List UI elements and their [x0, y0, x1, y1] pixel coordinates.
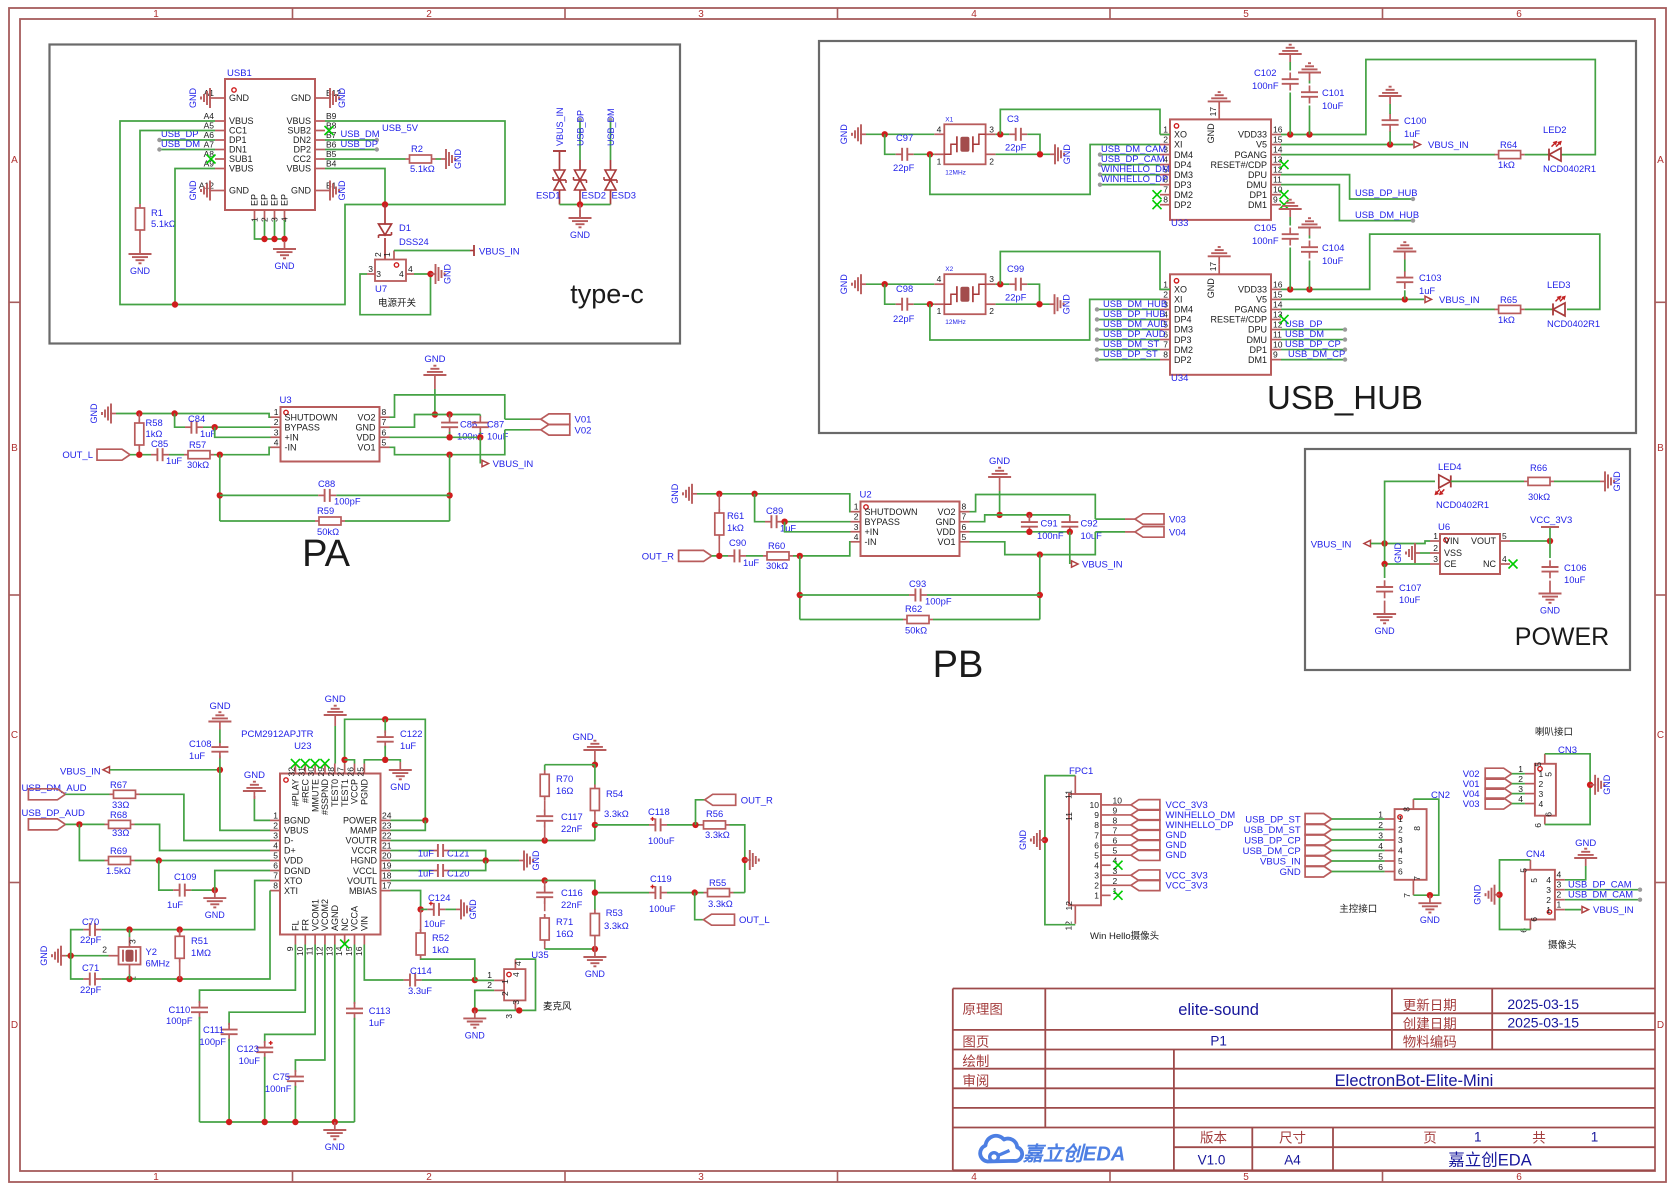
svg-text:VBUS_IN: VBUS_IN: [60, 767, 101, 778]
svg-text:2: 2: [1378, 820, 1383, 830]
wire: [970, 531, 1070, 533]
svg-text:5.1kΩ: 5.1kΩ: [151, 218, 176, 229]
svg-text:USB_DM_ST: USB_DM_ST: [1244, 825, 1301, 836]
svg-text:2: 2: [426, 1172, 432, 1183]
svg-text:C90: C90: [729, 537, 746, 548]
svg-text:GND: GND: [572, 732, 593, 743]
diode D1 DSS24: [384, 205, 386, 225]
svg-text:VCCA: VCCA: [350, 906, 360, 931]
wire: [325, 139, 377, 141]
svg-text:R54: R54: [606, 788, 623, 799]
junction: [592, 762, 598, 768]
junction: [1026, 529, 1032, 535]
led LED2 NCD0402R1: [1548, 149, 1550, 161]
wire: [1451, 480, 1524, 482]
net flag VBUS_IN (U33): [1414, 141, 1421, 147]
junction: [432, 411, 438, 417]
svg-text:V03: V03: [1169, 515, 1186, 526]
svg-text:5: 5: [1544, 772, 1554, 777]
wire: [475, 979, 494, 981]
port flag VCC_3V3 FPC1 pin 2: [1131, 880, 1160, 891]
wire: [1281, 298, 1424, 300]
svg-text:-IN: -IN: [865, 537, 877, 547]
junction: [1381, 540, 1387, 546]
svg-text:3: 3: [989, 124, 994, 134]
junction: [716, 553, 722, 559]
svg-text:R66: R66: [1530, 462, 1547, 473]
svg-text:1: 1: [1094, 891, 1099, 901]
svg-text:1uF: 1uF: [189, 750, 205, 761]
port flag GND FPC1 pin 6: [1131, 840, 1160, 851]
svg-text:30kΩ: 30kΩ: [766, 560, 788, 571]
svg-text:摄像头: 摄像头: [1548, 939, 1577, 951]
svg-text:2: 2: [1518, 774, 1523, 784]
svg-text:2: 2: [989, 306, 994, 316]
wire: [354, 945, 356, 1005]
svg-text:1: 1: [500, 979, 510, 984]
svg-text:LED4: LED4: [1438, 461, 1461, 472]
svg-text:R61: R61: [727, 510, 744, 521]
wire: [345, 719, 426, 820]
wire: [274, 220, 276, 239]
svg-text:DN1: DN1: [229, 145, 247, 155]
svg-text:VOUTR: VOUTR: [346, 836, 378, 846]
capacitor C84 1uF: [185, 426, 191, 428]
svg-text:GND: GND: [325, 694, 346, 705]
svg-text:GND: GND: [390, 782, 411, 792]
CN4 pin 4 gnd: [1555, 879, 1565, 881]
svg-text:C116: C116: [561, 887, 583, 898]
svg-text:3: 3: [1433, 554, 1438, 564]
gnd under C109: [214, 890, 216, 898]
svg-text:VOUT: VOUT: [1471, 536, 1497, 546]
wire: [914, 153, 935, 155]
wire: [1100, 154, 1160, 156]
wire: [1281, 359, 1345, 361]
usb hub U33: [1170, 119, 1271, 219]
svg-text:13: 13: [1273, 155, 1283, 165]
junction: [171, 410, 177, 416]
wire: [1100, 184, 1160, 186]
svg-text:图页: 图页: [962, 1035, 989, 1050]
svg-text:ESD2: ESD2: [582, 190, 607, 201]
svg-text:GND: GND: [291, 186, 312, 196]
net flag VBUS_IN (PA): [482, 460, 489, 466]
svg-text:C111: C111: [203, 1024, 224, 1035]
svg-text:WINHELLO_DP: WINHELLO_DP: [1101, 173, 1168, 184]
svg-text:GND: GND: [1602, 774, 1612, 795]
svg-text:1: 1: [1163, 279, 1168, 289]
junction: [692, 822, 698, 828]
svg-text:V5: V5: [1256, 295, 1267, 305]
wire: [391, 870, 432, 872]
svg-text:GND: GND: [670, 483, 680, 504]
wire: [135, 824, 271, 850]
svg-text:100nF: 100nF: [1252, 80, 1279, 91]
junction: [1037, 592, 1043, 598]
port flag VCC_3V3 FPC1 pin 10: [1131, 800, 1160, 811]
resistor R51 1M: [179, 930, 181, 936]
wire: [1281, 175, 1413, 199]
capacitor C89 1uF: [765, 521, 771, 523]
svg-text:FL: FL: [291, 920, 301, 931]
wire: [120, 121, 505, 305]
wire: [866, 283, 934, 285]
svg-text:GND: GND: [839, 124, 849, 145]
svg-text:GND: GND: [989, 456, 1010, 467]
wire: [159, 139, 215, 141]
wire: [101, 881, 270, 930]
svg-text:V1.0: V1.0: [1198, 1153, 1226, 1168]
wire: [595, 892, 649, 894]
svg-text:绘制: 绘制: [962, 1054, 989, 1069]
CN4 pin 2 USB_DM_CAM: [1555, 899, 1565, 901]
svg-text:V01: V01: [575, 415, 592, 426]
port flag WINHELLO_DM FPC1 pin 9: [1131, 810, 1160, 821]
net flag VBUS_IN (PB): [1072, 561, 1079, 567]
svg-text:8: 8: [1402, 807, 1412, 812]
svg-text:VIN: VIN: [360, 916, 370, 931]
svg-text:USB_DM: USB_DM: [606, 108, 616, 146]
junction: [1587, 782, 1593, 788]
junction: [1037, 151, 1043, 157]
svg-text:7: 7: [1094, 830, 1099, 840]
wire: [1332, 818, 1385, 820]
junction: [172, 301, 178, 307]
junction: [417, 906, 423, 912]
svg-text:R68: R68: [110, 809, 127, 820]
svg-text:B: B: [1657, 443, 1664, 454]
svg-text:NCD0402R1: NCD0402R1: [1436, 499, 1489, 510]
svg-text:8: 8: [1412, 826, 1422, 831]
wire: [364, 945, 403, 981]
wire: [229, 945, 305, 1026]
wire: [667, 892, 704, 894]
svg-text:USB_DP_ST: USB_DP_ST: [1245, 815, 1301, 826]
svg-text:1: 1: [1163, 125, 1168, 135]
capacitor C86 100nF: [449, 415, 451, 419]
wire: [1281, 329, 1345, 331]
svg-text:GND: GND: [1393, 543, 1403, 564]
svg-text:U33: U33: [1171, 218, 1188, 229]
junction: [927, 151, 933, 157]
svg-text:A7: A7: [204, 140, 215, 150]
capacitor C110 100pF: [199, 1001, 201, 1008]
wire: [1332, 829, 1385, 831]
junction: [226, 1119, 232, 1125]
svg-text:4: 4: [971, 1172, 977, 1183]
svg-text:3: 3: [1518, 784, 1523, 794]
audio codec U23 PCM2912APJTR: [280, 774, 381, 935]
wire: [169, 454, 184, 456]
wire: [800, 619, 903, 621]
wire: [595, 824, 649, 826]
junction: [217, 492, 223, 498]
svg-text:GND: GND: [1062, 294, 1072, 315]
resistor R62 50k: [903, 619, 907, 621]
connector CN2: [1395, 809, 1427, 880]
svg-text:TEST1: TEST1: [340, 779, 350, 807]
junction: [1547, 538, 1553, 544]
svg-text:GND: GND: [356, 422, 377, 432]
svg-text:页: 页: [1423, 1131, 1437, 1146]
capacitor C99 22pF: [1009, 283, 1015, 285]
wire: [1095, 518, 1125, 520]
svg-text:R67: R67: [110, 779, 127, 790]
svg-text:DP1: DP1: [229, 135, 247, 145]
CN2 pin 7: [1412, 880, 1414, 895]
svg-text:C123: C123: [237, 1043, 259, 1054]
svg-text:GND: GND: [585, 969, 606, 979]
junction: [1287, 131, 1293, 137]
svg-text:3: 3: [1557, 880, 1562, 890]
svg-text:VDD: VDD: [936, 527, 956, 537]
FPC1 pin 9: [1101, 814, 1111, 816]
wire: [214, 447, 271, 454]
svg-text:C120: C120: [447, 868, 469, 879]
junction: [1387, 141, 1393, 147]
svg-text:2: 2: [102, 945, 107, 955]
svg-text:12MHz: 12MHz: [945, 169, 966, 176]
wire: [594, 893, 596, 910]
no-connect U33 pin7: [1153, 190, 1162, 199]
wire: [885, 284, 896, 304]
svg-text:2: 2: [1557, 890, 1562, 900]
svg-text:10uF: 10uF: [239, 1055, 261, 1066]
svg-text:创建日期: 创建日期: [1403, 1017, 1457, 1032]
resistor R58 1k: [138, 414, 140, 420]
junction: [136, 410, 142, 416]
CN3 pin 5 top: [1544, 754, 1546, 764]
wire: [135, 860, 271, 862]
svg-text:GND: GND: [1375, 626, 1396, 636]
wire: [294, 1086, 296, 1122]
wire: [110, 769, 220, 771]
resistor R60 30k: [763, 555, 767, 557]
svg-text:3.3uF: 3.3uF: [408, 985, 432, 996]
svg-text:HGND: HGND: [351, 856, 378, 866]
svg-text:BYPASS: BYPASS: [285, 422, 320, 432]
ground under EP pins: [284, 241, 286, 249]
svg-text:C97: C97: [896, 132, 913, 143]
gnd flag at USB1 B1: [325, 190, 331, 192]
wire R1 to gnd: [139, 234, 141, 246]
gnd left PA input: [110, 413, 116, 415]
CN2 pin 5 VBUS_IN: [1385, 860, 1395, 862]
svg-text:USB_DM_CP: USB_DM_CP: [1288, 348, 1345, 359]
svg-text:5: 5: [1378, 852, 1383, 862]
wire: [1332, 871, 1385, 873]
wire: [1332, 860, 1385, 862]
wire: [1281, 339, 1345, 341]
gnd above U33 pin17: [1218, 101, 1220, 109]
junction: [542, 837, 548, 843]
capacitor C121 1uF: [432, 850, 438, 852]
CN3 pin 6 bottom: [1544, 816, 1546, 825]
gnd above C100: [1389, 96, 1391, 104]
svg-text:7: 7: [1163, 185, 1168, 195]
svg-text:VO2: VO2: [937, 507, 955, 517]
junction: [292, 1119, 298, 1125]
ground under ESD bus: [579, 205, 581, 219]
wire: [1371, 541, 1430, 544]
junction: [797, 553, 803, 559]
svg-text:VBUS_IN: VBUS_IN: [1082, 560, 1123, 571]
svg-text:7: 7: [382, 417, 387, 427]
svg-text:2: 2: [854, 512, 859, 522]
title block table: [953, 988, 1655, 990]
svg-text:更新日期: 更新日期: [1403, 998, 1457, 1013]
svg-text:50kΩ: 50kΩ: [317, 526, 339, 537]
svg-text:2: 2: [1433, 543, 1438, 553]
USB connector USB1: [225, 79, 315, 210]
wire: [930, 299, 1160, 340]
capacitor C92 10uF: [1069, 515, 1071, 518]
svg-text:ESD3: ESD3: [612, 190, 637, 201]
capacitor C91 100nF: [1028, 515, 1030, 518]
junction: [177, 976, 183, 982]
wire: [1525, 154, 1549, 156]
capacitor C102 100nF: [1289, 93, 1291, 135]
gnd right mid: [745, 859, 751, 861]
svg-text:AGND: AGND: [330, 904, 340, 931]
wire: [215, 427, 271, 437]
wire: [264, 1057, 266, 1122]
svg-text:R60: R60: [768, 540, 785, 551]
svg-text:B5: B5: [326, 149, 337, 159]
svg-text:C101: C101: [1322, 87, 1344, 98]
wire: [254, 799, 270, 820]
svg-text:6: 6: [1533, 823, 1543, 828]
svg-text:PCM2912APJTR: PCM2912APJTR: [241, 729, 313, 740]
svg-text:28: 28: [326, 767, 336, 777]
wire: [220, 494, 318, 496]
svg-text:GND: GND: [1018, 830, 1028, 851]
junction: [472, 1007, 478, 1013]
svg-text:8: 8: [962, 502, 967, 512]
svg-text:5: 5: [1502, 531, 1507, 541]
svg-text:6: 6: [1113, 836, 1118, 846]
svg-text:ElectronBot-Elite-Mini: ElectronBot-Elite-Mini: [1335, 1072, 1494, 1090]
wire: [1554, 480, 1600, 482]
junction: [716, 491, 722, 497]
capacitor C75 100nF: [294, 1070, 296, 1077]
no-connect U33 pin9: [1280, 200, 1289, 209]
svg-text:4: 4: [1378, 841, 1383, 851]
resistor R67 33: [110, 793, 114, 795]
wire: [71, 930, 84, 956]
svg-text:1: 1: [274, 407, 279, 417]
no-connect U23 pins 32-29: [291, 759, 300, 768]
svg-text:USB_HUB: USB_HUB: [1267, 379, 1423, 416]
capacitor C71 22pF: [83, 978, 89, 980]
connector FPC1: [1069, 794, 1101, 905]
capacitor C101 10uF: [1309, 106, 1311, 135]
svg-text:物料编码: 物料编码: [1403, 1035, 1457, 1050]
svg-text:3: 3: [1378, 831, 1383, 841]
wire: [1160, 134, 1170, 136]
gnd under CN2: [1429, 895, 1431, 903]
wire: [345, 760, 355, 764]
section box USB_HUB: [819, 41, 1636, 433]
svg-text:U6: U6: [1438, 522, 1450, 533]
wire: [996, 153, 1050, 155]
svg-text:X1: X1: [945, 116, 953, 123]
capacitor C93 100pF: [909, 594, 915, 596]
svg-text:6: 6: [273, 861, 278, 871]
svg-text:VBUS_IN: VBUS_IN: [493, 459, 534, 470]
svg-text:25: 25: [355, 767, 365, 777]
wire: [697, 494, 851, 512]
gnd above C105: [1289, 209, 1291, 217]
capacitor C70 22pF: [83, 929, 89, 931]
svg-text:GND: GND: [839, 274, 849, 295]
wire: [79, 824, 104, 860]
svg-text:EP: EP: [270, 194, 280, 206]
wire: [1332, 839, 1385, 841]
svg-text:版本: 版本: [1200, 1131, 1228, 1146]
svg-text:7: 7: [1163, 340, 1168, 350]
wire: [545, 881, 595, 893]
gnd under bottom rail: [334, 1122, 336, 1130]
svg-text:GND: GND: [1540, 606, 1561, 616]
svg-text:7: 7: [1412, 876, 1422, 881]
svg-text:3: 3: [698, 9, 704, 20]
junction: [742, 857, 748, 863]
ground right of R2: [441, 158, 447, 160]
gnd left of X2 area: [860, 283, 866, 285]
wire: [334, 726, 336, 764]
wire: [1097, 329, 1160, 331]
svg-text:C114: C114: [410, 965, 432, 976]
gnd flag at USB1 A1: [209, 97, 215, 99]
svg-text:C: C: [1657, 730, 1664, 741]
junction: [177, 926, 183, 932]
svg-text:DP2: DP2: [1174, 200, 1192, 210]
junction: [882, 131, 888, 137]
svg-text:USB_DM_CAM: USB_DM_CAM: [1568, 889, 1633, 900]
svg-text:8: 8: [1113, 816, 1118, 826]
svg-text:1: 1: [1591, 1130, 1599, 1145]
resistor R68 33: [105, 823, 109, 825]
svg-text:RESET#/CDP: RESET#/CDP: [1210, 160, 1267, 170]
svg-text:5: 5: [1243, 9, 1249, 20]
svg-text:VBUS: VBUS: [229, 164, 254, 174]
svg-text:DP4: DP4: [1174, 160, 1192, 170]
wire: [1100, 174, 1160, 176]
svg-text:2025-03-15: 2025-03-15: [1507, 996, 1579, 1012]
gnd right of R66: [1600, 480, 1606, 482]
wire: [1565, 909, 1581, 911]
svg-text:R53: R53: [606, 907, 623, 918]
junction: [1402, 296, 1408, 302]
svg-text:Win Hello摄像头: Win Hello摄像头: [1090, 930, 1159, 942]
svg-text:100nF: 100nF: [265, 1083, 292, 1094]
svg-text:1: 1: [1546, 905, 1551, 915]
wire: [544, 765, 546, 771]
wire: [996, 133, 1010, 135]
svg-text:VCCL: VCCL: [353, 866, 377, 876]
svg-text:GND: GND: [1062, 144, 1072, 165]
svg-text:VBUS: VBUS: [229, 116, 254, 126]
resistor R65 1k: [1495, 308, 1499, 310]
svg-text:2: 2: [500, 991, 510, 996]
svg-text:4: 4: [937, 274, 942, 284]
svg-text:5: 5: [1094, 850, 1099, 860]
svg-text:V03: V03: [1463, 799, 1480, 810]
svg-text:DM4: DM4: [1174, 305, 1193, 315]
junction: [212, 887, 218, 893]
